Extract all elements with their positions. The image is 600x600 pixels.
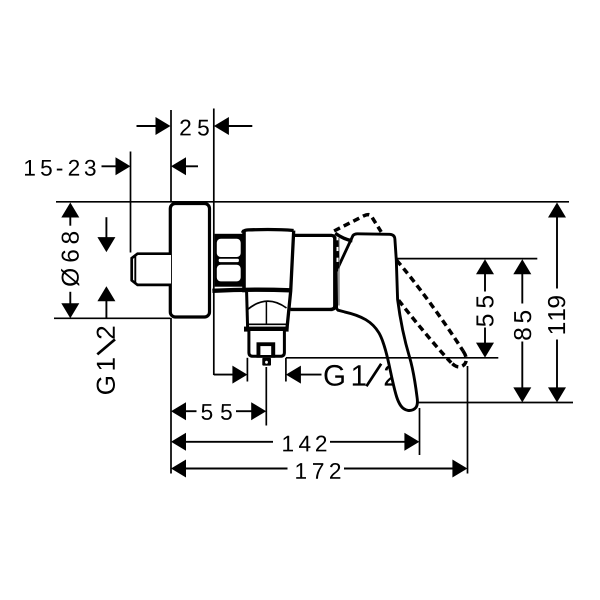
- extension line x131 (15-23): [130, 152, 132, 253]
- dimension 85: [513, 259, 531, 402]
- body-handle gray seam: [338, 238, 340, 306]
- dashed handle tip: [451, 351, 466, 367]
- extension line x171 bottom: [170, 318, 172, 474]
- handle lever: [336, 234, 417, 411]
- extension line top (y202): [56, 201, 569, 203]
- extension line outlet center: [265, 367, 267, 426]
- dimension 119: [548, 203, 566, 403]
- extension line 55 bottom: [286, 357, 498, 359]
- extension line G1/2 outlet left: [246, 358, 248, 382]
- extension line G1/2 outlet right: [285, 358, 287, 382]
- label G1/2 left: [97, 327, 115, 394]
- extension line 85/119 bottom: [417, 402, 574, 404]
- extension line 55/85 top: [396, 258, 538, 260]
- dimension G1/2 outlet: [214, 364, 398, 387]
- dimension D68: [61, 203, 79, 319]
- dashed handle upper edge: [397, 260, 464, 351]
- dashed handle rear: [335, 240, 339, 269]
- dimension 142: [171, 433, 419, 452]
- union nut: [215, 234, 247, 287]
- dimension 55 right: [476, 259, 494, 357]
- outlet: [249, 331, 285, 358]
- extension line flange bottom left: [54, 317, 171, 319]
- extension line x171 top: [170, 110, 172, 202]
- dashed handle top: [334, 215, 381, 232]
- extension line x214: [213, 109, 215, 376]
- aerator nib: [262, 358, 271, 366]
- dashed handle lower edge: [399, 300, 452, 363]
- extension line dashed tip: [467, 366, 469, 474]
- dimension 172: [171, 460, 467, 479]
- swing arc: [335, 233, 352, 241]
- dimension 55 bottom: [171, 402, 266, 420]
- extension line lever tip: [419, 408, 421, 455]
- dimension 25: [137, 117, 253, 136]
- wall flange: [170, 204, 209, 318]
- valve body: [212, 229, 335, 329]
- threaded stub: [132, 254, 171, 285]
- dimension stub G1/2 arrows: [97, 217, 115, 318]
- dimension 15-23: [25, 157, 198, 176]
- lower housing: [244, 292, 289, 332]
